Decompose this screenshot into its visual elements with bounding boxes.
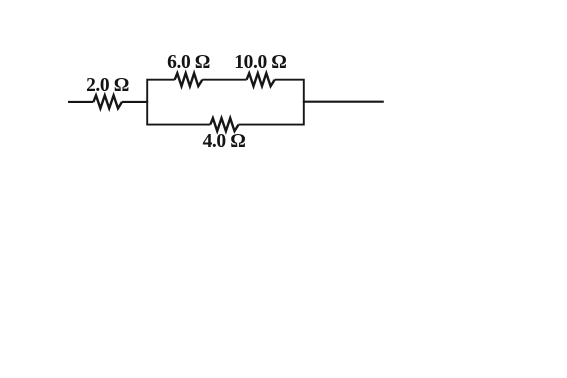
label 4.0 ohm: [203, 132, 246, 152]
wire right lead: [304, 101, 384, 103]
wire top middle: [202, 79, 246, 81]
wire between R1 and parallel box: [122, 101, 147, 103]
wire box left lower: [147, 101, 210, 125]
resistor R 10.0 ohm: [247, 73, 275, 86]
label 2.0 ohm: [86, 76, 129, 96]
label 10.0 ohm: [234, 53, 286, 73]
wire top right to right node: [275, 80, 304, 103]
label 6.0 ohm: [167, 53, 210, 73]
node left junction / parallel loop box upper left: [147, 80, 175, 103]
resistor R 4.0 ohm: [210, 118, 238, 131]
resistor R 2.0 ohm: [93, 95, 122, 108]
wire bottom right: [239, 101, 304, 125]
resistor R 6.0 ohm: [175, 73, 203, 86]
wire left lead: [68, 101, 93, 103]
